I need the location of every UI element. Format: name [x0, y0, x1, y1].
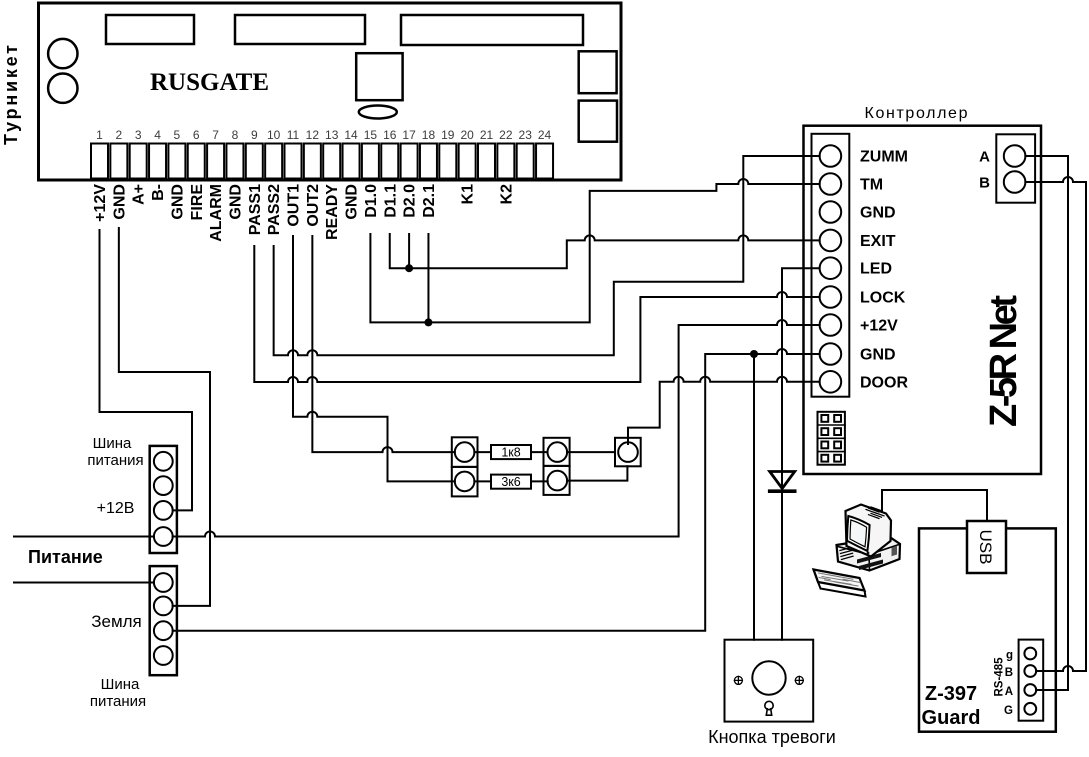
- svg-text:READY: READY: [324, 184, 341, 240]
- relay K1 block on board: [579, 51, 617, 93]
- board connector block top-middle: [235, 15, 365, 44]
- svg-text:GND: GND: [860, 205, 896, 222]
- relay K2 block on board: [579, 101, 617, 142]
- computer PC (monitor, case, keyboard): [814, 505, 901, 597]
- svg-text:Кнопка тревоги: Кнопка тревоги: [708, 727, 836, 747]
- svg-text:24: 24: [538, 128, 552, 142]
- board mounting hole lower: [48, 74, 77, 103]
- turnstile board RUSGATE outline: [39, 3, 622, 180]
- wire controller B to RS-485 B: [1025, 177, 1086, 671]
- svg-text:11: 11: [287, 128, 300, 142]
- svg-text:G: G: [1004, 705, 1013, 717]
- junction GND / alarm button: [750, 350, 758, 358]
- RS-485 terminal block of Z-397: [1019, 640, 1044, 721]
- resistor R2 3к6: [491, 475, 531, 489]
- svg-text:A: A: [979, 149, 990, 166]
- controller terminal strip: [812, 134, 850, 397]
- controller U2 Z-5R Net box: [804, 126, 1042, 474]
- svg-text:15: 15: [364, 128, 378, 142]
- svg-text:18: 18: [422, 128, 436, 142]
- terminal pin 8 of turnstile: [226, 144, 243, 179]
- wire resistor network output to DOOR: [628, 377, 820, 444]
- terminal pin 15 of turnstile: [362, 144, 379, 179]
- terminal pin 10 of turnstile: [265, 144, 282, 179]
- resistor chain terminal block right (one circle): [615, 438, 641, 467]
- svg-text:2: 2: [116, 128, 123, 142]
- svg-text:ALARM: ALARM: [208, 184, 225, 242]
- svg-text:ZUMM: ZUMM: [860, 149, 908, 166]
- USB connector box: [967, 521, 1006, 573]
- svg-text:3: 3: [135, 128, 142, 142]
- terminal pin 16 of turnstile: [381, 144, 398, 179]
- svg-text:Контроллер: Контроллер: [865, 105, 968, 122]
- terminal pin 23 of turnstile: [517, 144, 534, 179]
- svg-text:D1.1: D1.1: [382, 184, 399, 218]
- svg-text:1: 1: [96, 128, 103, 142]
- board connector block top-right: [401, 15, 583, 45]
- svg-text:22: 22: [499, 128, 513, 142]
- wire power input + to upper block: [14, 536, 154, 538]
- svg-text:12: 12: [306, 128, 320, 142]
- svg-text:Шина: Шина: [101, 676, 140, 693]
- controller RS-485 connector block A/B: [996, 134, 1035, 202]
- svg-text:B-: B-: [150, 184, 167, 201]
- svg-text:PASS1: PASS1: [247, 184, 264, 235]
- svg-text:D2.1: D2.1: [421, 184, 438, 218]
- svg-text:питания: питания: [87, 452, 143, 469]
- svg-text:TM: TM: [860, 177, 883, 194]
- svg-text:D2.0: D2.0: [402, 184, 419, 218]
- wire left block to R1: [474, 451, 491, 453]
- terminal pin 14 of turnstile: [343, 144, 360, 179]
- terminal pin 11 of turnstile: [285, 144, 302, 179]
- terminal pin 21 of turnstile: [478, 144, 495, 179]
- svg-text:+12V: +12V: [92, 184, 109, 222]
- wire OUT2 to resistor R1 input: [312, 236, 454, 452]
- diode VD1: [770, 472, 795, 489]
- terminal pin 6 of turnstile: [188, 144, 205, 179]
- terminal pin 17 of turnstile: [401, 144, 418, 179]
- controller pin TM: [820, 173, 842, 195]
- terminal pin 9 of turnstile: [246, 144, 263, 179]
- svg-text:Z-397: Z-397: [925, 683, 977, 705]
- svg-text:питания: питания: [90, 693, 146, 710]
- terminal pin 3 of turnstile: [130, 144, 147, 179]
- svg-text:Guard: Guard: [922, 707, 981, 729]
- power bus terminal block lower (Шина питания Земля): [150, 566, 177, 675]
- svg-text:6: 6: [193, 128, 200, 142]
- svg-text:K2: K2: [498, 184, 515, 205]
- controller pin LED: [820, 257, 842, 279]
- wire LED to diode and alarm button right terminal: [782, 268, 820, 640]
- terminal pin 2 of turnstile: [110, 144, 127, 179]
- svg-text:7: 7: [212, 128, 219, 142]
- alarm button face: [752, 661, 785, 694]
- svg-text:4: 4: [154, 128, 161, 142]
- svg-text:21: 21: [480, 128, 494, 142]
- wire OUT1 to resistor R2 input: [293, 236, 455, 481]
- controller pin GND: [820, 201, 842, 223]
- svg-text:PASS2: PASS2: [266, 184, 283, 235]
- wire controller A to RS-485 A: [1025, 156, 1068, 690]
- terminal pin 18 of turnstile: [420, 144, 437, 179]
- wire R1 to middle block: [531, 451, 548, 453]
- svg-text:9: 9: [251, 128, 258, 142]
- wire D2.1 joins D1.0 net: [427, 234, 429, 322]
- resistor chain terminal block left (two circles): [452, 437, 478, 467]
- svg-text:19: 19: [441, 128, 455, 142]
- wire GND terminal 2 to ground bus: [119, 228, 210, 606]
- wire D1.0 to TM: [370, 179, 819, 322]
- svg-text:K1: K1: [460, 184, 477, 205]
- wire D1.1 to EXIT: [390, 234, 820, 268]
- svg-text:3к6: 3к6: [501, 475, 520, 489]
- wire ground bus to controller GND: [173, 349, 820, 631]
- controller pin ZUMM: [820, 145, 842, 167]
- svg-text:10: 10: [267, 128, 281, 142]
- svg-text:GND: GND: [344, 184, 361, 220]
- wire GND junction to alarm button left terminal: [753, 354, 755, 640]
- wire computer to USB: [882, 490, 987, 521]
- buzzer ellipse on board: [359, 106, 397, 119]
- wire PASS1 to LOCK: [254, 246, 819, 382]
- alarm button SB1 box: [725, 640, 814, 722]
- svg-text:DOOR: DOOR: [860, 374, 908, 391]
- svg-text:RS-485: RS-485: [994, 657, 1006, 697]
- controller jumper block: [818, 412, 845, 465]
- terminal pin 12 of turnstile: [304, 144, 321, 179]
- svg-text:g: g: [1006, 650, 1013, 662]
- terminal pin 1 of turnstile: [91, 144, 108, 179]
- svg-text:GND: GND: [111, 184, 128, 220]
- IC U1 on board: [356, 53, 402, 100]
- svg-text:OUT2: OUT2: [305, 184, 322, 227]
- svg-text:D1.0: D1.0: [363, 184, 380, 218]
- svg-text:OUT1: OUT1: [286, 184, 303, 227]
- board mounting hole upper: [48, 39, 77, 68]
- svg-text:A+: A+: [131, 184, 148, 205]
- svg-text:13: 13: [325, 128, 339, 142]
- svg-text:USB: USB: [976, 530, 995, 565]
- svg-text:20: 20: [460, 128, 474, 142]
- resistor R1 1к8: [491, 445, 531, 459]
- svg-text:Питание: Питание: [28, 547, 103, 567]
- controller pin DOOR: [820, 371, 842, 393]
- terminal pin 7 of turnstile: [207, 144, 224, 179]
- board connector block top-left: [106, 15, 194, 44]
- svg-text:+12В: +12В: [97, 500, 135, 517]
- svg-text:GND: GND: [227, 184, 244, 220]
- wire left block to R2: [474, 480, 491, 482]
- resistor chain terminal block middle (two circles): [544, 438, 570, 466]
- wire power input - to lower block: [14, 582, 154, 584]
- terminal pin 24 of turnstile: [536, 144, 553, 179]
- svg-text:FIRE: FIRE: [189, 184, 206, 221]
- alarm button screw left: [734, 676, 742, 684]
- controller pin EXIT: [820, 230, 842, 252]
- svg-text:B: B: [979, 175, 990, 192]
- svg-text:23: 23: [519, 128, 533, 142]
- svg-text:Земля: Земля: [91, 612, 142, 631]
- svg-text:5: 5: [174, 128, 181, 142]
- controller pin +12V: [820, 314, 842, 336]
- wire +12V terminal 1 to power bus: [100, 230, 193, 510]
- alarm button keyhole: [765, 701, 773, 709]
- svg-text:8: 8: [232, 128, 239, 142]
- svg-text:RUSGATE: RUSGATE: [150, 69, 269, 96]
- svg-text:17: 17: [402, 128, 416, 142]
- svg-text:B: B: [1005, 667, 1013, 679]
- svg-text:LED: LED: [860, 261, 892, 278]
- wire D2.0 joins D1.1 net: [408, 234, 410, 268]
- svg-text:GND: GND: [860, 347, 896, 364]
- wire R2 to middle block: [531, 480, 548, 482]
- terminal pin 5 of turnstile: [168, 144, 185, 179]
- wire PASS2 to ZUMM: [274, 156, 820, 355]
- junction D2.1/D1.0: [424, 318, 432, 326]
- converter Z-397 Guard box: [919, 528, 1056, 731]
- svg-text:Турникет: Турникет: [1, 45, 21, 145]
- terminal pin 19 of turnstile: [439, 144, 456, 179]
- svg-text:+12V: +12V: [860, 318, 898, 335]
- svg-text:Z-5R Net: Z-5R Net: [983, 295, 1025, 427]
- controller pin LOCK: [820, 286, 842, 308]
- terminal pin 20 of turnstile: [459, 144, 476, 179]
- controller pin GND: [820, 343, 842, 365]
- junction D2.0/D1.1: [405, 264, 413, 272]
- wire +12V bus to controller +12V: [173, 320, 820, 537]
- svg-text:14: 14: [344, 128, 358, 142]
- svg-text:EXIT: EXIT: [860, 233, 896, 250]
- svg-text:1к8: 1к8: [501, 446, 520, 460]
- wire middle block top to right block: [567, 451, 615, 453]
- svg-text:16: 16: [383, 128, 397, 142]
- terminal pin 22 of turnstile: [497, 144, 514, 179]
- svg-text:GND: GND: [169, 184, 186, 220]
- svg-text:A: A: [1005, 686, 1013, 698]
- power bus terminal block upper (Шина питания +12В): [150, 446, 177, 553]
- svg-text:Шина: Шина: [93, 435, 132, 452]
- terminal pin 13 of turnstile: [323, 144, 340, 179]
- alarm button screw right: [795, 676, 803, 684]
- svg-text:LOCK: LOCK: [860, 290, 906, 307]
- wire middle block bottom up into right block: [567, 466, 627, 480]
- terminal pin 4 of turnstile: [149, 144, 166, 179]
